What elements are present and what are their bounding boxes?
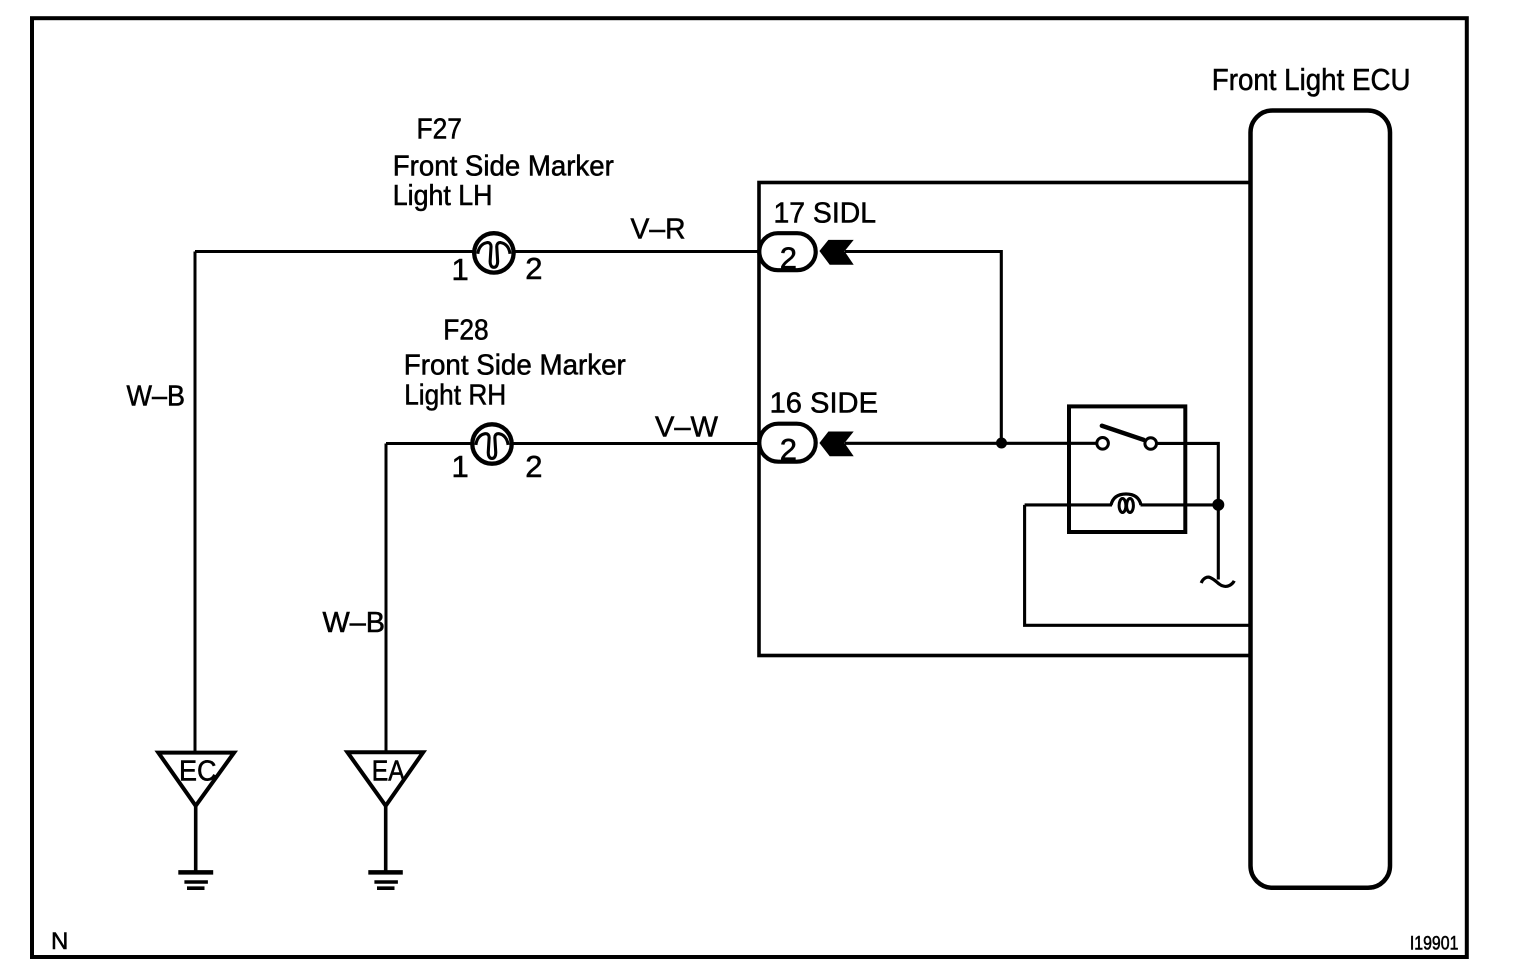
svg-text:I19901: I19901 xyxy=(1410,934,1459,955)
svg-text:V–W: V–W xyxy=(655,412,719,444)
svg-text:16 SIDE: 16 SIDE xyxy=(770,387,878,419)
lamp F27 Front Side Marker Light LH xyxy=(474,233,513,272)
svg-text:1: 1 xyxy=(452,449,469,484)
wire V-R from lamp F27 to pin 17 xyxy=(195,250,758,253)
wire from switch contact to corner down xyxy=(1157,443,1218,504)
wire coil left xyxy=(1025,503,1112,506)
svg-text:N: N xyxy=(51,928,68,955)
svg-text:2: 2 xyxy=(780,432,797,467)
switch contact left xyxy=(1097,438,1109,450)
switch blade xyxy=(1102,426,1144,440)
svg-text:W–B: W–B xyxy=(323,607,386,639)
svg-text:2: 2 xyxy=(525,449,542,484)
svg-text:EC: EC xyxy=(179,756,217,788)
wire coil return to ECU xyxy=(1025,505,1250,625)
junction node at V-R/SIDE xyxy=(996,438,1007,449)
pin 17 SIDL connector oval xyxy=(759,233,815,270)
wire W-B RH vertical to ground EA xyxy=(385,444,388,753)
relay coil xyxy=(1111,494,1141,513)
wire from pin 16 SIDE to relay switch xyxy=(845,442,1097,445)
svg-text:Front Side Marker: Front Side Marker xyxy=(393,151,614,183)
svg-text:W–B: W–B xyxy=(127,381,186,413)
junction node at coil wire xyxy=(1212,499,1224,511)
lamp F28 Front Side Marker Light RH xyxy=(472,424,511,463)
svg-text:F27: F27 xyxy=(417,113,462,145)
wire W-B LH vertical to ground EC xyxy=(194,252,197,753)
wire ground drop to body ground xyxy=(1217,505,1220,580)
svg-text:V–R: V–R xyxy=(631,214,686,246)
svg-text:17 SIDL: 17 SIDL xyxy=(774,198,877,230)
svg-text:Light RH: Light RH xyxy=(404,379,506,411)
ECU connector box (inner rectangle) xyxy=(759,183,1251,656)
wire coil right xyxy=(1141,503,1219,506)
svg-text:F28: F28 xyxy=(443,314,488,346)
wire from pin 17 SIDL to node junction xyxy=(845,252,1001,444)
svg-text:2: 2 xyxy=(780,241,797,276)
ground EA xyxy=(347,752,423,888)
Front Light ECU body (rounded rectangle) xyxy=(1251,111,1391,888)
svg-text:Front Light ECU: Front Light ECU xyxy=(1212,62,1411,97)
svg-text:EA: EA xyxy=(372,756,406,788)
svg-text:2: 2 xyxy=(525,251,542,286)
ground EC xyxy=(158,753,234,889)
body ground squiggle xyxy=(1201,577,1234,586)
relay box xyxy=(1069,406,1185,532)
svg-text:Light LH: Light LH xyxy=(393,180,493,212)
switch contact right xyxy=(1145,438,1157,450)
svg-text:1: 1 xyxy=(452,252,469,287)
pin 16 SIDE connector oval xyxy=(759,424,815,462)
connector arrow pin 17 xyxy=(819,240,853,265)
wire V-W from lamp F28 to pin 16 xyxy=(386,442,758,445)
connector arrow pin 16 xyxy=(819,432,853,457)
svg-text:Front Side Marker: Front Side Marker xyxy=(404,349,626,381)
